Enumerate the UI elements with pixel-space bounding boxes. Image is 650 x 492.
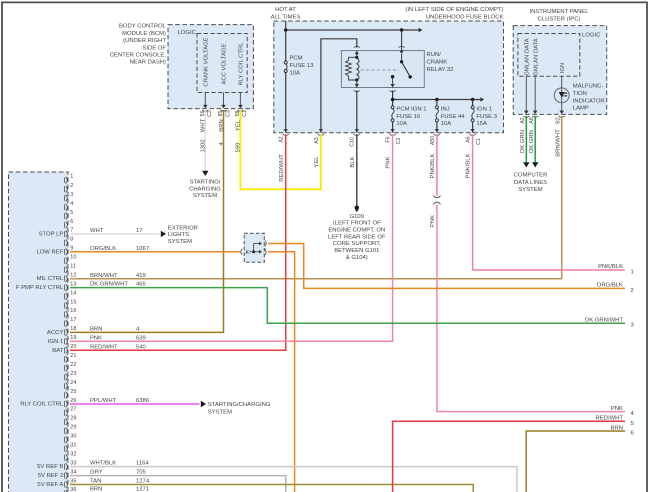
svg-text:MALFUNC-: MALFUNC- [573,84,603,90]
svg-text:LOGIC: LOGIC [582,32,601,38]
inline connector on A50 wire [433,196,440,198]
svg-text:21: 21 [70,353,76,359]
svg-text:PCM: PCM [290,56,303,62]
svg-text:DK GRN: DK GRN [529,130,535,153]
svg-text:5V REF B: 5V REF B [37,464,63,470]
svg-text:ALL TIMES: ALL TIMES [271,14,301,20]
svg-text:15A: 15A [476,121,487,127]
svg-text:17: 17 [70,317,76,323]
svg-text:TION: TION [573,91,587,97]
svg-text:DK GRN/WHT: DK GRN/WHT [90,282,128,288]
svg-text:10A: 10A [290,70,301,76]
BCM pin brackets [202,110,208,111]
ground G109 [355,206,359,210]
svg-text:INSTRUMENT PANEL: INSTRUMENT PANEL [529,9,589,15]
svg-text:540: 540 [136,344,147,350]
connector pins 1-36 [65,174,77,492]
svg-text:SYSTEM: SYSTEM [208,409,232,415]
svg-text:PNK: PNK [430,215,436,227]
svg-text:2: 2 [70,183,73,189]
svg-text:GMLAN DATA: GMLAN DATA [525,38,531,75]
svg-text:BRN: BRN [611,425,623,431]
wire PPL/WHT 6386 rly coil ctrl [70,403,200,405]
svg-text:RED/WHT: RED/WHT [90,344,118,350]
svg-text:32: 32 [70,451,76,457]
svg-text:(LEFT FRONT OF: (LEFT FRONT OF [333,221,381,227]
svg-text:ENGINE COMPT, ON: ENGINE COMPT, ON [328,227,385,233]
svg-text:DK GRN: DK GRN [520,130,526,153]
svg-text:LIGHTS: LIGHTS [168,232,189,238]
wire coil bottom to C10 [356,90,358,132]
wire DK GRN/WHT 465 f pmp rly ctrl to right edge 3 [70,288,625,324]
svg-text:RUN/: RUN/ [427,52,442,58]
svg-text:CRANK VOLTAGE: CRANK VOLTAGE [204,37,210,86]
svg-text:5V REF 2: 5V REF 2 [38,473,64,479]
fuse PCM IGN 1 FUSE 16 10A [391,106,394,109]
BCM module box [168,25,253,109]
relay mechanical link [361,69,400,71]
svg-text:C1: C1 [476,138,482,145]
svg-text:A3: A3 [314,137,320,143]
svg-text:1164: 1164 [136,461,149,467]
svg-text:705: 705 [136,470,147,476]
svg-text:34: 34 [70,469,76,475]
svg-text:30: 30 [70,434,76,440]
underhood fuse block box [274,21,504,133]
wire YEL 599 rly coil ctrl to fuse block A3 [240,110,321,189]
svg-text:BRN/WHT: BRN/WHT [90,273,118,279]
svg-text:3: 3 [70,192,73,198]
svg-text:SYSTEM: SYSTEM [518,187,542,193]
svg-text:31: 31 [70,443,76,449]
svg-text:INJ: INJ [441,107,450,113]
svg-text:PNK/BLK: PNK/BLK [598,264,623,270]
svg-text:18: 18 [70,326,76,332]
svg-text:29: 29 [70,425,76,431]
svg-text:SYSTEM: SYSTEM [168,239,192,245]
svg-text:C1: C1 [242,110,248,117]
svg-text:BODY CONTROL: BODY CONTROL [119,24,167,30]
svg-text:16: 16 [70,308,76,314]
wire PNK A50 lower to right edge 4 [437,204,625,411]
run/crank relay 32 box [341,51,424,88]
svg-text:CORE SUPPORT,: CORE SUPPORT, [333,241,381,247]
wire RED/WHT to right edge 5 [393,421,625,492]
svg-text:PNK: PNK [386,156,392,168]
svg-text:GRY: GRY [90,470,103,476]
svg-text:LEFT REAR SIDE OF: LEFT REAR SIDE OF [328,234,386,240]
wire TAN 1274 pin 35 [70,485,473,492]
svg-text:35: 35 [70,478,76,484]
svg-text:PNK/BLK: PNK/BLK [466,153,472,178]
wire WHT/BLK 1164 pin 33 [70,467,517,492]
svg-text:8: 8 [70,237,73,243]
svg-text:RED/WHT: RED/WHT [596,416,624,422]
svg-text:IGN 1: IGN 1 [476,107,491,113]
svg-text:BETWEEN G101: BETWEEN G101 [334,248,379,254]
svg-text:13: 13 [70,281,76,287]
wire PNK/BLK A50 upper [436,134,438,196]
wire PNK 639 F6 to pin 19 [70,134,393,341]
svg-text:639: 639 [136,335,146,341]
wire ORG/BLK splice top out to right edge 2 [268,244,625,289]
svg-text:DATA LINES: DATA LINES [514,180,547,186]
svg-text:FUSE 3: FUSE 3 [476,114,497,120]
svg-text:14: 14 [70,290,76,296]
wire GRY 705 pin 34 [70,476,286,492]
svg-text:NEAR DASH): NEAR DASH) [130,60,166,66]
wire BRN 4 acc voltage to pin 18 [70,110,224,332]
svg-text:19: 19 [70,335,76,341]
svg-text:(UNDER RIGHT: (UNDER RIGHT [123,38,166,44]
svg-text:WHT: WHT [90,228,104,234]
svg-text:B2: B2 [556,117,562,123]
svg-text:DK GRN/WHT: DK GRN/WHT [585,317,623,323]
wire PNK/BLK A6 to right edge 1 [473,134,625,270]
svg-text:28: 28 [70,416,76,422]
svg-text:F PMP RLY CTRL: F PMP RLY CTRL [16,285,64,291]
battery feed stub and bus [285,21,287,30]
IPC LOGIC inner box [518,34,580,77]
svg-text:24: 24 [70,380,76,386]
svg-text:ACC VOLTAGE: ACC VOLTAGE [222,43,228,84]
svg-text:HOT AT: HOT AT [275,7,296,13]
svg-text:C10: C10 [350,137,356,147]
svg-text:CHARGING: CHARGING [189,186,221,192]
svg-text:27: 27 [70,407,76,413]
ignition bus under relay [392,90,394,105]
instrument panel cluster box [513,26,607,115]
svg-text:A6: A6 [466,136,472,142]
svg-text:C3: C3 [225,110,231,117]
svg-text:PNK/BLK: PNK/BLK [430,153,436,178]
svg-text:17: 17 [136,228,143,234]
svg-text:TAN: TAN [90,479,101,485]
svg-text:1: 1 [70,174,73,180]
wire WHT 17 stop lp [70,233,160,235]
GMLAN DK GRN wire 1 [525,116,527,163]
wire ORG/BLK 1067 low ref to splice [70,251,241,253]
svg-text:RLY COIL CTRL: RLY COIL CTRL [239,42,245,86]
svg-text:A2: A2 [279,136,285,142]
svg-text:465: 465 [136,282,147,288]
svg-text:F6: F6 [386,136,392,142]
fuse IGN 1 FUSE 3 15A [471,106,474,109]
fuse INJ FUSE 44 10A [435,106,438,109]
svg-text:RLY COIL CTRL: RLY COIL CTRL [20,402,64,408]
svg-text:INDICATOR: INDICATOR [573,98,605,104]
svg-text:LOGIC: LOGIC [178,30,197,36]
svg-text:CENTER CONSOLE,: CENTER CONSOLE, [110,53,167,59]
svg-text:IGN 1: IGN 1 [48,339,63,345]
svg-text:1: 1 [631,270,634,276]
svg-text:WHT: WHT [201,118,207,132]
svg-text:A2: A2 [520,117,526,123]
svg-text:IGN: IGN [560,63,566,73]
svg-text:PNK: PNK [90,335,102,341]
svg-text:G109: G109 [350,214,364,220]
relay coil bottom pin [356,80,358,88]
wire ORG/BLK splice bottom out going down [268,252,295,492]
svg-text:4: 4 [70,201,73,207]
IPC internal stubs GMLAN [525,76,527,113]
svg-text:C2: C2 [396,138,402,145]
BCM LOGIC inner box [197,34,247,93]
svg-text:RELAY 32: RELAY 32 [427,67,454,73]
svg-text:419: 419 [136,273,146,279]
module connector block (left) [9,172,69,492]
svg-text:RED/WHT: RED/WHT [279,154,285,182]
svg-text:STARTING/: STARTING/ [190,180,221,186]
svg-text:(IN LEFT SIDE OF ENGINE COMPT): (IN LEFT SIDE OF ENGINE COMPT) [405,7,503,13]
svg-text:YEL: YEL [236,119,242,131]
svg-text:& G104): & G104) [346,255,368,261]
svg-text:FUSE 13: FUSE 13 [290,63,315,69]
svg-text:12: 12 [70,272,76,278]
svg-text:PCM IGN 1: PCM IGN 1 [396,107,426,113]
svg-text:20: 20 [70,344,76,350]
wire BRN to right edge 6 [526,431,625,492]
svg-text:LAMP: LAMP [573,106,589,112]
svg-text:BAT: BAT [52,348,63,354]
svg-text:ORG/BLK: ORG/BLK [90,246,116,252]
fuse block bottom pins [284,129,288,132]
svg-text:33: 33 [70,460,76,466]
svg-text:599: 599 [236,143,242,153]
svg-text:36: 36 [70,487,76,492]
relay switch output pin [391,75,394,78]
svg-text:EXTERIOR: EXTERIOR [168,225,198,231]
svg-text:BRN/WHT: BRN/WHT [556,129,562,157]
svg-text:C2: C2 [207,110,213,117]
svg-text:WHT/BLK: WHT/BLK [90,461,116,467]
svg-text:2: 2 [631,288,634,294]
wire WHT 1300 crank voltage [204,110,206,171]
svg-text:25: 25 [70,389,76,395]
svg-text:PPL/WHT: PPL/WHT [90,398,117,404]
svg-text:ACCY: ACCY [47,330,63,336]
svg-text:6386: 6386 [136,398,150,404]
svg-text:FUSE 44: FUSE 44 [441,114,466,120]
svg-text:23: 23 [70,371,76,377]
svg-text:COMPUTER: COMPUTER [514,173,548,179]
malfunction indicator lamp [561,76,563,113]
splice box K [244,233,264,262]
svg-text:YEL: YEL [314,156,320,168]
svg-text:BRN: BRN [90,486,102,492]
svg-text:9: 9 [70,246,73,252]
svg-text:11: 11 [70,264,76,270]
fuse PCM FUSE 13 10A [285,30,287,133]
relay switch [401,30,403,51]
svg-text:5V REF A: 5V REF A [37,482,63,488]
svg-text:10A: 10A [396,121,407,127]
relay coil [349,57,357,60]
GMLAN DK GRN wire 2 [534,116,536,163]
svg-text:CLUSTER (IPC): CLUSTER (IPC) [538,16,581,22]
svg-text:FUSE 16: FUSE 16 [396,114,421,120]
svg-text:PNK: PNK [611,406,623,412]
svg-text:STARTING/CHARGING: STARTING/CHARGING [208,402,271,408]
wire BRN/WHT 419 IPC B2 to pin 12 [561,116,563,279]
wire RED/WHT 640 A2 to pin 20 [70,134,286,350]
BCM internal stubs [204,93,206,108]
svg-text:7: 7 [70,228,73,234]
svg-text:1300: 1300 [201,139,207,153]
IPC IGN stub to B2 [559,111,564,114]
svg-text:1067: 1067 [136,246,149,252]
svg-text:1274: 1274 [136,479,150,485]
svg-text:15: 15 [70,299,76,305]
svg-text:STOP LP: STOP LP [39,232,64,238]
svg-text:6: 6 [70,219,73,225]
svg-text:1271: 1271 [136,486,149,492]
relay coil top pin [356,51,358,58]
svg-text:GMLAN DATA: GMLAN DATA [533,38,539,75]
wire BLK to G109 [356,134,358,206]
svg-text:A8: A8 [529,117,535,123]
svg-text:BRN: BRN [90,327,102,333]
svg-text:SYSTEM: SYSTEM [193,193,217,199]
svg-text:SIDE OF: SIDE OF [142,45,166,51]
svg-text:UNDERHOOD FUSE BLOCK: UNDERHOOD FUSE BLOCK [426,14,504,20]
svg-text:MIL CTRL: MIL CTRL [37,276,64,282]
svg-text:A50: A50 [430,136,436,145]
svg-text:ORG/BLK: ORG/BLK [597,283,623,289]
svg-text:22: 22 [70,362,76,368]
svg-text:CRANK: CRANK [427,60,448,66]
svg-text:5: 5 [70,210,73,216]
svg-text:10: 10 [70,255,76,261]
wire coil top to A3 drop [321,39,357,133]
svg-text:10A: 10A [441,121,452,127]
svg-text:BRN: BRN [219,119,225,131]
svg-text:26: 26 [70,398,76,404]
svg-text:MODULE (BCM): MODULE (BCM) [122,31,166,37]
svg-text:K: K [245,250,249,256]
svg-text:LOW REF: LOW REF [36,249,63,255]
svg-text:BLK: BLK [350,156,356,167]
